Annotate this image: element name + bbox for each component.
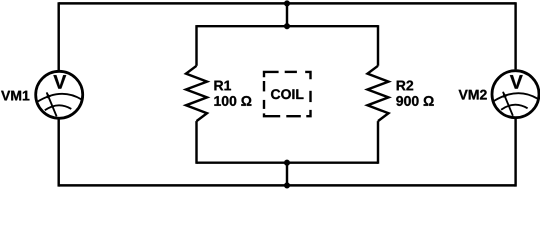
coil dashed box top middle dash xyxy=(285,71,297,73)
node junction dot top outer xyxy=(284,1,290,7)
coil dashed box right middle dash xyxy=(309,91,311,102)
voltmeter VM1 needle arrowhead xyxy=(47,92,51,99)
coil dashed box top-right corner dash xyxy=(305,72,310,79)
coil dashed box bottom-left corner dash xyxy=(264,113,280,116)
resistor R1 zigzag xyxy=(186,66,207,121)
voltmeter VM2 meter lower arc xyxy=(501,105,527,110)
wire inner top xyxy=(197,25,379,27)
voltmeter VM1 meter upper arc xyxy=(37,94,81,102)
voltmeter VM2 meter upper arc xyxy=(493,93,537,101)
node junction dot top inner xyxy=(284,23,290,29)
label R1 xyxy=(214,81,231,91)
wire outer top xyxy=(59,2,516,4)
label R1 value xyxy=(214,96,251,106)
wire center junction bottom xyxy=(286,163,288,186)
resistor R2 zigzag xyxy=(368,66,389,121)
label COIL xyxy=(271,89,303,99)
wire inner right upper lead xyxy=(377,25,379,66)
wire inner right lower lead xyxy=(377,121,379,164)
wire inner left lower lead xyxy=(195,121,197,164)
wire outer right lower xyxy=(514,119,516,187)
wire outer left upper xyxy=(57,2,59,70)
coil dashed box bottom middle dash xyxy=(286,115,301,117)
node junction dot bottom outer xyxy=(284,183,290,189)
wire outer right upper xyxy=(514,2,516,69)
node junction dot bottom inner xyxy=(284,160,290,166)
wire inner left upper lead xyxy=(195,25,197,66)
coil dashed box left lower dash xyxy=(263,100,265,109)
wire center junction top xyxy=(286,3,288,26)
voltmeter VM2 needle arrowhead xyxy=(503,91,507,98)
voltmeter VM1 needle xyxy=(47,93,57,117)
coil dashed box bottom-right corner dash xyxy=(306,110,310,116)
voltmeter VM2 letter V xyxy=(510,75,523,88)
label VM1 xyxy=(1,91,29,101)
wire inner bottom xyxy=(197,161,379,163)
wire outer left lower xyxy=(57,119,59,186)
voltmeter VM2 needle xyxy=(503,92,513,116)
wire outer bottom xyxy=(59,184,516,186)
voltmeter VM2 body xyxy=(492,71,539,118)
label R2 value xyxy=(396,96,433,106)
coil dashed box left upper dash xyxy=(263,81,265,91)
label VM2 xyxy=(459,90,487,100)
coil dashed box top-left corner dash xyxy=(264,72,279,77)
voltmeter VM1 body xyxy=(36,71,83,118)
label R2 xyxy=(397,81,413,91)
voltmeter VM1 meter lower arc xyxy=(45,105,72,110)
voltmeter VM1 letter V xyxy=(53,75,66,88)
